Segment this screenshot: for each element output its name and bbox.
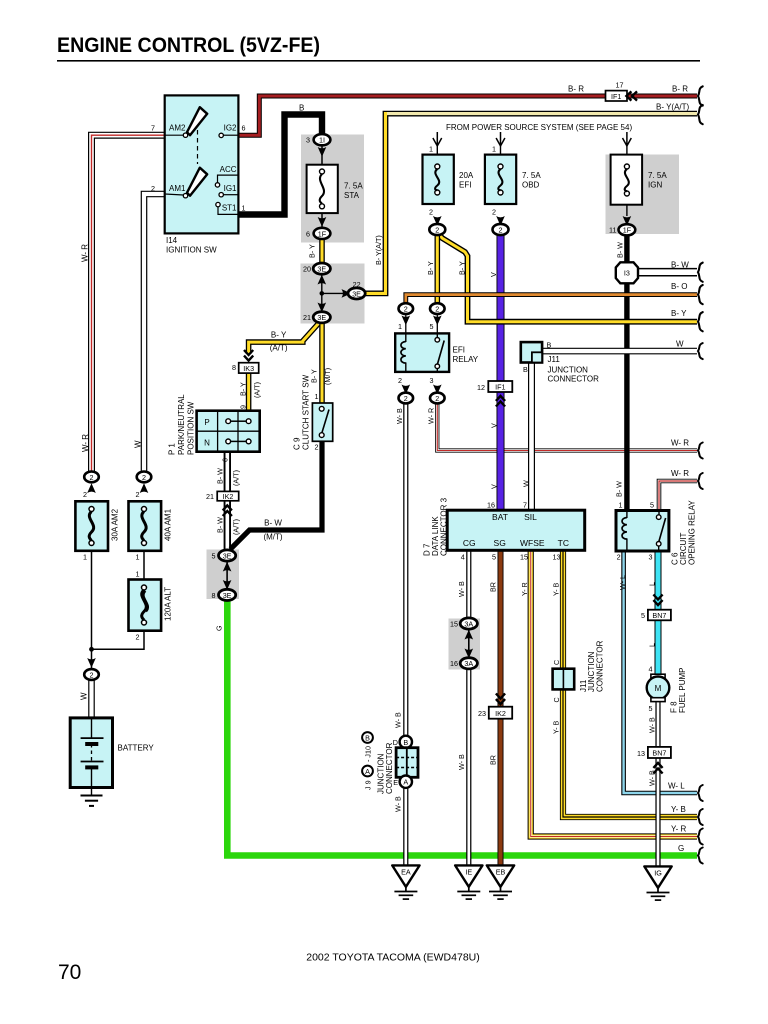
- svg-text:EA: EA: [401, 868, 411, 877]
- svg-text:(A/T): (A/T): [270, 344, 288, 353]
- svg-text:I3: I3: [624, 269, 630, 278]
- svg-text:W- R: W- R: [81, 244, 90, 262]
- wire W: from J11 right to brace: [543, 348, 697, 355]
- svg-text:CONNECTOR 3: CONNECTOR 3: [440, 497, 449, 556]
- svg-text:IG2: IG2: [224, 123, 237, 132]
- svg-text:2: 2: [90, 473, 94, 482]
- junction dot: [320, 291, 325, 296]
- svg-text:BN7: BN7: [652, 611, 666, 620]
- wire B-Y: straight down from EFI fuse oval to relay pin5 oval: [434, 234, 440, 304]
- svg-text:FROM POWER SOURCE SYSTEM (SEE: FROM POWER SOURCE SYSTEM (SEE PAGE 54): [446, 123, 632, 132]
- svg-text:IG1: IG1: [224, 184, 237, 193]
- svg-text:W: W: [134, 440, 143, 448]
- arrow + oval 2 above battery: [84, 658, 99, 680]
- oval 2 above 40A AM1: [136, 472, 152, 499]
- oval 3E-21: [303, 303, 330, 323]
- svg-text:Y- B: Y- B: [671, 805, 686, 814]
- wire B-Y: STA fuse to 1F oval: [321, 213, 323, 228]
- svg-text:EB: EB: [496, 868, 506, 877]
- wire W-R horizontal to right brace (from EFI relay pin3): [437, 399, 697, 451]
- svg-text:6: 6: [306, 229, 310, 238]
- ground EA: [392, 865, 419, 899]
- svg-text:20: 20: [303, 265, 311, 274]
- wire B-W thick main: from 1F-11 oval through I3 down to C6 pin1: [624, 234, 629, 513]
- ground IE: [455, 865, 482, 899]
- svg-text:7: 7: [523, 501, 527, 510]
- svg-text:70: 70: [58, 961, 81, 984]
- junction dot ALT/AM2: [89, 647, 94, 652]
- pin AM2: [183, 133, 187, 137]
- OBD fuse pin2 oval: [492, 208, 509, 236]
- svg-text:B- Y(A/T): B- Y(A/T): [374, 235, 383, 265]
- svg-text:3E: 3E: [223, 551, 232, 560]
- svg-text:JUNCTION: JUNCTION: [548, 366, 589, 375]
- connector BN7-5 on L: [641, 595, 671, 621]
- wire B-Y (A/T): IK3 down to park/neutral sw pin9: [246, 373, 252, 412]
- svg-text:L: L: [648, 643, 657, 647]
- svg-text:1: 1: [315, 392, 319, 401]
- svg-text:2: 2: [315, 443, 319, 452]
- brace B-Y(A/T): [698, 105, 703, 124]
- wire: 40A AM1 fuse down to 120A ALT fuse: [143, 551, 145, 580]
- relay bottom ovals: [398, 376, 413, 403]
- wire B-W double (A/T): park/neutral pin6 down to IK2-21: [224, 452, 231, 492]
- svg-text:7. 5A: 7. 5A: [522, 171, 541, 180]
- svg-text:B: B: [299, 104, 304, 113]
- svg-text:SIL: SIL: [524, 512, 537, 522]
- wire Y-B: from J11 lower conn down, right to brace: [563, 689, 697, 817]
- oval 1I pin3: [306, 134, 330, 157]
- dashed link: [197, 130, 199, 164]
- svg-text:(A/T): (A/T): [231, 470, 240, 486]
- svg-text:2: 2: [398, 376, 402, 385]
- svg-text:B- Y: B- Y: [426, 261, 435, 275]
- svg-text:7. 5A: 7. 5A: [648, 171, 667, 180]
- AM1 lever: [187, 168, 207, 196]
- svg-text:B: B: [547, 341, 552, 350]
- wire W-R second horizontal to brace, corner down to C6 pin5: [659, 481, 697, 514]
- wire B thick: ignition ST1 right, up, right, down into 1I oval: [239, 115, 323, 215]
- svg-text:B: B: [523, 365, 528, 374]
- wire B-Y right vertical (B-Y A/T): from top corner down to 3E-22: [365, 114, 697, 294]
- svg-text:(M/T): (M/T): [263, 533, 282, 542]
- svg-text:W: W: [80, 692, 89, 700]
- fuse 20A EFI: [423, 155, 474, 204]
- svg-text:15: 15: [450, 619, 458, 628]
- svg-text:W- L: W- L: [668, 782, 685, 791]
- svg-text:PARK/NEUTRAL: PARK/NEUTRAL: [177, 394, 186, 455]
- title underline: [57, 60, 700, 62]
- wire W-B: from D7 CG down through 3A 15/16 to IE ground: [466, 550, 471, 866]
- svg-text:ST1: ST1: [222, 204, 237, 213]
- svg-text:3A: 3A: [464, 619, 473, 628]
- svg-text:(M/T): (M/T): [323, 368, 332, 385]
- svg-text:3A: 3A: [464, 659, 473, 668]
- gray panel behind 3E 5/8 ovals: [207, 550, 240, 600]
- svg-text:W- B: W- B: [394, 796, 403, 812]
- svg-text:3E: 3E: [223, 591, 232, 600]
- oval 3E-20: [303, 263, 330, 285]
- svg-text:1F: 1F: [318, 229, 327, 238]
- svg-text:1: 1: [398, 322, 402, 331]
- pin ACC: [215, 183, 219, 187]
- svg-text:POSITION SW: POSITION SW: [187, 401, 196, 455]
- svg-text:AM2: AM2: [169, 123, 186, 132]
- svg-text:CG: CG: [463, 538, 476, 548]
- svg-text:9: 9: [239, 405, 248, 409]
- wire W: from ignition AM1 left and down to 2 oval: [144, 194, 165, 472]
- EFI fuse feed arrow: [429, 132, 442, 155]
- wire Y-B stub from D7 TC down to J11 lower conn: [560, 550, 566, 668]
- IGN fuse pin 1F oval: [609, 216, 635, 235]
- svg-text:Y- R: Y- R: [671, 825, 686, 834]
- svg-text:BAT: BAT: [492, 512, 508, 522]
- wire L cyan: from C6 pin3 down through BN7-5 to fuel pump: [655, 551, 662, 676]
- svg-text:EFI: EFI: [459, 181, 471, 190]
- connector IF1-12 on V wire: [477, 381, 512, 407]
- svg-text:(A/T): (A/T): [253, 382, 262, 398]
- svg-text:IG: IG: [654, 869, 662, 878]
- ground EB: [487, 865, 514, 899]
- svg-text:1: 1: [429, 145, 433, 154]
- svg-text:B- Y: B- Y: [671, 309, 687, 318]
- svg-text:5: 5: [649, 704, 653, 713]
- svg-text:B- Y: B- Y: [458, 261, 467, 275]
- EFI relay box: [395, 333, 479, 372]
- svg-text:CONNECTOR: CONNECTOR: [385, 742, 394, 794]
- svg-text:B- Y: B- Y: [308, 244, 317, 258]
- wire B-Y (M/T): from 3E-21 straight down to clutch start sw pin1: [319, 323, 325, 406]
- gray panel behind IGN fuse: [606, 155, 680, 235]
- wire W/B pair: from J11 down to D7 SIL: [528, 363, 535, 511]
- svg-text:B- W: B- W: [671, 261, 689, 270]
- svg-text:4: 4: [461, 553, 465, 562]
- J11 junction connector (lower) on Y-B: [551, 640, 604, 734]
- junction I3 octagon: [616, 262, 638, 283]
- svg-text:P 1: P 1: [168, 443, 177, 455]
- svg-text:20A: 20A: [459, 171, 474, 180]
- svg-text:13: 13: [637, 749, 645, 758]
- svg-text:B- W: B- W: [615, 481, 624, 497]
- EFI fuse pin2 oval: [429, 208, 445, 236]
- wire W-B: from J9/J10 circle A down to EA ground: [403, 788, 408, 867]
- svg-text:W- B: W- B: [395, 408, 404, 424]
- fuse 40A AM1: [129, 501, 173, 561]
- AM2 lever: [187, 107, 207, 135]
- svg-text:22: 22: [353, 280, 361, 289]
- svg-text:V: V: [489, 423, 498, 428]
- svg-text:AM1: AM1: [169, 184, 186, 193]
- svg-text:1: 1: [492, 145, 496, 154]
- svg-text:W: W: [522, 480, 531, 487]
- wire: 3A-15 to 3A-16 connecting line: [468, 628, 470, 659]
- svg-text:30A AM2: 30A AM2: [111, 508, 120, 541]
- svg-text:IF1: IF1: [611, 92, 621, 101]
- svg-text:2: 2: [404, 305, 408, 314]
- svg-text:B: B: [365, 733, 370, 742]
- svg-text:B: B: [403, 738, 408, 747]
- svg-text:1: 1: [83, 553, 87, 562]
- pin ST1: [216, 202, 220, 206]
- oval 1F pin6 under STA: [306, 217, 330, 239]
- svg-text:IGN: IGN: [648, 181, 662, 190]
- svg-text:120A ALT: 120A ALT: [164, 587, 173, 621]
- svg-text:13: 13: [553, 553, 561, 562]
- wire Y-R: from D7 WFSE down, right to brace: [531, 550, 697, 836]
- oval 2 above 30A AM2: [83, 472, 99, 499]
- svg-text:- J10: - J10: [364, 746, 373, 762]
- wire V purple: from OBD oval down through IF1-12 to D7 BAT: [497, 234, 505, 511]
- svg-text:6: 6: [220, 458, 229, 462]
- svg-text:IE: IE: [465, 868, 472, 877]
- svg-text:A: A: [365, 767, 370, 776]
- svg-text:15: 15: [520, 553, 528, 562]
- oval 2 relay pin5: [430, 303, 445, 333]
- svg-text:B- W: B- W: [215, 517, 224, 533]
- wire BR brown: from D7 SG down through IK2-23 to EB ground: [498, 550, 504, 866]
- fuse 7.5A IGN: [611, 155, 668, 216]
- svg-text:3: 3: [649, 553, 653, 562]
- gray panel behind 3E 20/21/22 ovals: [301, 264, 365, 324]
- svg-text:7. 5A: 7. 5A: [344, 182, 363, 191]
- svg-text:3E: 3E: [317, 265, 326, 274]
- wire: 120A ALT pin2 down, left to junction at W-R column: [92, 631, 145, 650]
- svg-text:W- B: W- B: [394, 712, 403, 728]
- svg-text:RELAY: RELAY: [453, 355, 479, 364]
- svg-text:V: V: [489, 484, 498, 489]
- svg-text:B- R: B- R: [672, 85, 688, 94]
- svg-text:3E: 3E: [317, 313, 326, 322]
- wire: 30A AM2 fuse down to junction with ALT, to arrow/oval 2: [91, 551, 93, 669]
- svg-text:Y- B: Y- B: [551, 582, 560, 596]
- svg-text:SG: SG: [494, 538, 506, 548]
- fuse 120A ALT: [129, 570, 173, 642]
- wire B-R top: from ignition IG2 up and right to brace, through IF1-17: [239, 96, 698, 135]
- svg-text:L: L: [648, 582, 657, 586]
- svg-text:B- W: B- W: [264, 519, 282, 528]
- svg-text:W- B: W- B: [457, 754, 466, 770]
- svg-text:W: W: [676, 340, 684, 349]
- svg-text:OBD: OBD: [522, 181, 540, 190]
- svg-text:W- L: W- L: [618, 575, 627, 590]
- svg-text:11: 11: [609, 226, 616, 235]
- svg-text:8: 8: [232, 363, 236, 372]
- pin IG1: [219, 193, 223, 197]
- svg-text:2: 2: [142, 473, 146, 482]
- svg-text:3E: 3E: [352, 289, 361, 298]
- svg-text:B- O: B- O: [671, 282, 687, 291]
- svg-text:(A/T): (A/T): [231, 519, 240, 535]
- wire: 3E-20 down to junction, right to 3E-22, down to 3E-21 (thin black): [321, 274, 323, 312]
- oval 3A-15: [450, 618, 477, 640]
- wire B-O orange: from EFI relay pin1 oval up, right to brace: [406, 295, 697, 304]
- svg-text:3: 3: [430, 376, 434, 385]
- svg-text:21: 21: [206, 492, 214, 501]
- wire B-W (M/T) thick: clutch sw pin2 down, left, diagonal into 3E-5: [231, 441, 323, 549]
- svg-text:STA: STA: [344, 191, 360, 200]
- wire B-W double (A/T): IK2-21 down to 3E-5 oval: [224, 500, 231, 551]
- svg-text:4: 4: [649, 665, 653, 674]
- wire W-B: from fuel pump down through BN7-13 to IG ground: [655, 700, 660, 867]
- svg-text:2: 2: [492, 208, 496, 217]
- svg-text:7: 7: [151, 123, 155, 132]
- svg-text:B- W: B- W: [215, 468, 224, 484]
- gray panel behind STA fuse: [301, 135, 364, 243]
- svg-text:CONNECTOR: CONNECTOR: [548, 375, 600, 384]
- svg-text:BATTERY: BATTERY: [118, 744, 155, 753]
- svg-text:W- R: W- R: [427, 408, 436, 424]
- connector IK3 pin8: [232, 350, 259, 373]
- svg-text:G: G: [215, 625, 224, 631]
- pin IG2: [219, 133, 223, 137]
- pin AM1: [183, 194, 187, 198]
- wire B-W double: from I3 right to brace: [638, 268, 697, 277]
- svg-text:W- B: W- B: [648, 717, 657, 733]
- svg-text:C: C: [552, 697, 561, 702]
- svg-text:IK2: IK2: [223, 492, 234, 501]
- svg-text:2: 2: [499, 225, 503, 234]
- svg-text:2: 2: [83, 490, 87, 499]
- svg-text:3: 3: [306, 136, 310, 145]
- svg-text:V: V: [489, 272, 498, 277]
- connector IK2 pin21: [206, 491, 239, 516]
- svg-text:J11: J11: [548, 355, 561, 364]
- svg-text:2: 2: [136, 633, 140, 642]
- brace B-R: [698, 86, 703, 105]
- svg-text:C: C: [552, 660, 561, 665]
- svg-text:BR: BR: [488, 582, 497, 592]
- svg-text:CONNECTOR: CONNECTOR: [596, 640, 605, 692]
- svg-text:2: 2: [435, 225, 439, 234]
- svg-text:IK2: IK2: [495, 709, 506, 718]
- svg-text:N: N: [204, 439, 210, 448]
- svg-text:16: 16: [450, 659, 458, 668]
- svg-text:A: A: [403, 778, 408, 787]
- svg-text:1: 1: [242, 204, 246, 213]
- svg-text:2: 2: [429, 208, 433, 217]
- svg-text:Y- B: Y- B: [551, 720, 560, 734]
- wire B: 1I oval to STA fuse: [321, 146, 323, 165]
- svg-text:1: 1: [619, 501, 623, 510]
- svg-text:J 9: J 9: [364, 780, 373, 790]
- svg-text:17: 17: [616, 81, 624, 90]
- connector IK2-23 on BR: [478, 694, 512, 719]
- svg-text:B- R: B- R: [568, 85, 584, 94]
- svg-text:16: 16: [487, 501, 495, 510]
- svg-text:1: 1: [136, 553, 140, 562]
- svg-text:BR: BR: [488, 755, 497, 765]
- svg-text:P: P: [204, 418, 209, 427]
- svg-text:BN7: BN7: [652, 749, 666, 758]
- svg-text:6: 6: [242, 123, 246, 132]
- wire B-Y: from EFI fuse oval diagonal, down x=467.5, right to brace: [439, 234, 697, 322]
- svg-text:IF1: IF1: [495, 383, 505, 392]
- svg-text:FUEL PUMP: FUEL PUMP: [678, 668, 687, 714]
- wire W-L: from C6 pin2 down, right to brace: [624, 551, 697, 793]
- svg-text:I14: I14: [166, 236, 178, 245]
- svg-text:2: 2: [136, 490, 140, 499]
- battery: [70, 718, 154, 796]
- battery ground: [81, 796, 103, 806]
- gray panel behind 3A 15/16 ovals: [449, 619, 481, 670]
- wire G green: from 3E-8 down col x=227.3 then right to brace: [227, 601, 697, 856]
- svg-text:B- Y: B- Y: [239, 382, 248, 396]
- svg-text:2: 2: [435, 394, 439, 403]
- svg-text:8: 8: [212, 591, 216, 600]
- svg-text:M: M: [655, 684, 662, 693]
- svg-text:G: G: [678, 844, 684, 853]
- fuse 7.5A OBD: [485, 155, 541, 204]
- svg-text:IGNITION SW: IGNITION SW: [166, 246, 217, 255]
- svg-text:2002 TOYOTA TACOMA (EWD478U): 2002 TOYOTA TACOMA (EWD478U): [306, 952, 480, 964]
- oval 3E-8: [212, 580, 236, 601]
- oval 3E-5: [212, 550, 236, 572]
- fuse 30A AM2: [75, 501, 119, 561]
- oval 3E-22 with right arrow: [342, 280, 366, 299]
- svg-text:5: 5: [430, 322, 434, 331]
- wire: 3E-5 to 3E-8 connecting line: [226, 560, 228, 590]
- svg-text:EFI: EFI: [453, 346, 465, 355]
- fuel pump M: [647, 668, 687, 714]
- svg-text:2: 2: [90, 670, 94, 679]
- svg-text:WFSE: WFSE: [520, 538, 545, 548]
- svg-text:TC: TC: [558, 538, 569, 548]
- svg-text:1: 1: [136, 570, 140, 579]
- svg-text:B- Y: B- Y: [271, 331, 287, 340]
- svg-text:W- B: W- B: [457, 581, 466, 597]
- connector BN7-13: [637, 747, 671, 774]
- svg-text:CLUTCH START SW: CLUTCH START SW: [302, 374, 311, 450]
- svg-text:B- W: B- W: [616, 242, 625, 258]
- svg-text:1I: 1I: [319, 136, 325, 145]
- svg-text:ENGINE CONTROL (5VZ-FE): ENGINE CONTROL (5VZ-FE): [57, 33, 320, 57]
- wire B-Y: 1F-6 oval down to 3E-20 oval: [319, 239, 325, 264]
- svg-text:5: 5: [641, 611, 645, 620]
- svg-text:2: 2: [435, 305, 439, 314]
- svg-text:1F: 1F: [623, 226, 632, 235]
- svg-text:2: 2: [151, 184, 155, 193]
- wire W-B: from EFI relay pin2 oval down to J9/J10 circle B: [403, 402, 408, 737]
- OBD fuse feed arrow: [492, 132, 505, 155]
- svg-text:W- R: W- R: [81, 434, 90, 452]
- svg-text:12: 12: [477, 383, 485, 392]
- svg-text:B- Y(A/T): B- Y(A/T): [656, 103, 690, 112]
- svg-text:OPENING RELAY: OPENING RELAY: [688, 500, 697, 565]
- svg-text:5: 5: [212, 551, 216, 560]
- svg-text:W- B: W- B: [648, 770, 657, 786]
- svg-text:40A AM1: 40A AM1: [164, 508, 173, 541]
- svg-text:2: 2: [404, 394, 408, 403]
- svg-text:ACC: ACC: [220, 165, 237, 174]
- svg-text:5: 5: [650, 501, 654, 510]
- svg-text:5: 5: [492, 553, 496, 562]
- wire W: battery 2 oval down to battery: [88, 680, 95, 718]
- connector IF1-17 on B-R: [606, 81, 638, 102]
- wire B-Y: from 3E-21 diagonal left, down into IK3: [249, 324, 318, 354]
- oval 2 relay pin1: [398, 303, 413, 333]
- svg-text:W- R: W- R: [671, 439, 689, 448]
- oval 3A-16: [450, 649, 477, 669]
- svg-text:C 9: C 9: [293, 437, 302, 450]
- svg-text:23: 23: [478, 709, 486, 718]
- IGN fuse feed arrow: [623, 132, 632, 155]
- svg-text:2: 2: [617, 553, 621, 562]
- svg-text:Y- R: Y- R: [520, 582, 529, 596]
- svg-text:B- Y: B- Y: [310, 369, 319, 383]
- wire W-R left column: from ignition AM2 left and down to 2 oval: [92, 135, 165, 471]
- svg-text:IK3: IK3: [243, 364, 254, 373]
- svg-text:21: 21: [303, 313, 311, 322]
